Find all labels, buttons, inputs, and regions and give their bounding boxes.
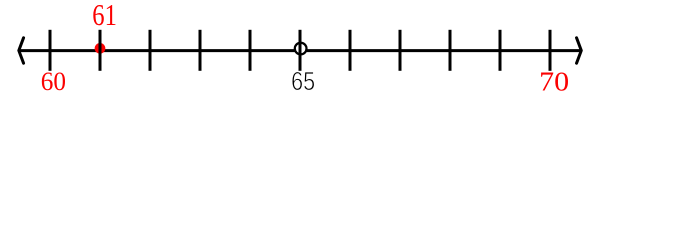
label 61 (red, above point) [92, 0, 117, 31]
svg-text:70: 70 [539, 67, 569, 97]
svg-text:61: 61 [92, 0, 117, 31]
left arrowhead [19, 38, 24, 63]
svg-text:60: 60 [41, 66, 66, 96]
tick 70 [549, 30, 552, 71]
number line axis [19, 49, 582, 52]
tick 68 [449, 30, 452, 71]
svg-text:65: 65 [291, 67, 315, 96]
tick 60 [49, 30, 52, 71]
tick 67 [399, 30, 402, 71]
tick 62 [149, 30, 152, 71]
open circle at 65 [295, 43, 307, 55]
tick 69 [499, 30, 502, 71]
label 70 (red, below axis) [539, 67, 569, 97]
tick 63 [199, 30, 202, 71]
right arrowhead [577, 38, 582, 63]
tick 65 [299, 30, 302, 71]
label 65 (black, below axis) [291, 67, 315, 96]
plotted point (closed) at 61 [95, 43, 106, 54]
tick 64 [249, 30, 252, 71]
tick 66 [349, 30, 352, 71]
label 60 (red, below axis) [41, 66, 66, 96]
tick 61 [99, 30, 102, 71]
